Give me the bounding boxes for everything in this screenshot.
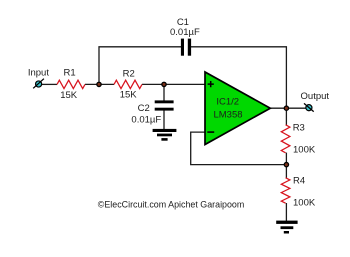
svg-text:0.01µF: 0.01µF xyxy=(131,114,161,125)
svg-text:15K: 15K xyxy=(120,90,138,101)
capacitor C1 xyxy=(181,39,191,56)
wire R4 bottom to ground xyxy=(285,203,287,221)
svg-text:100K: 100K xyxy=(293,198,316,209)
resistor R2 xyxy=(114,80,142,88)
svg-text:R2: R2 xyxy=(123,68,135,79)
output node junction xyxy=(284,106,288,110)
svg-text:Output: Output xyxy=(301,91,330,102)
node A junction xyxy=(97,82,101,86)
svg-text:©ElecCircuit.com Apichet Garai: ©ElecCircuit.com Apichet Garaipoom xyxy=(98,200,245,211)
svg-text:0.01µF: 0.01µF xyxy=(170,27,200,38)
node C junction xyxy=(284,162,288,166)
resistor R1 xyxy=(57,80,85,88)
wire node A up and right to C1 left plate xyxy=(99,47,181,85)
wire C1 right plate to output node xyxy=(191,47,287,108)
wire R3 bottom to node C xyxy=(285,153,287,165)
svg-text:R1: R1 xyxy=(64,68,76,79)
svg-text:R4: R4 xyxy=(293,175,305,186)
wire feedback from op-amp - input to node C xyxy=(191,132,287,165)
svg-text:15K: 15K xyxy=(60,90,78,101)
svg-text:C2: C2 xyxy=(138,103,150,114)
wire R2 to op-amp + input through node B xyxy=(142,83,205,85)
svg-text:IC1/2: IC1/2 xyxy=(216,97,239,108)
wire R1 to R2 through node A xyxy=(85,83,114,85)
resistor R4 xyxy=(281,178,290,203)
resistor R3 xyxy=(281,125,290,153)
wire op-amp output to output terminal xyxy=(270,107,307,109)
output terminal xyxy=(304,103,314,111)
wire input terminal to R1 xyxy=(42,83,58,85)
op-amp U1 IC1/2 LM358 xyxy=(205,72,270,145)
ground below C2 xyxy=(153,129,177,141)
capacitor C2 xyxy=(155,100,174,110)
wire node B down to C2 top plate xyxy=(163,84,165,101)
wire output node down to R3 xyxy=(285,108,287,125)
ground below R4 xyxy=(276,221,297,234)
node B junction xyxy=(162,82,166,86)
svg-text:Input: Input xyxy=(28,67,49,78)
svg-text:R3: R3 xyxy=(293,122,305,133)
svg-text:LM358: LM358 xyxy=(213,110,242,121)
wire node C down to R4 xyxy=(285,165,287,178)
input terminal xyxy=(33,79,44,89)
wire C2 bottom plate to ground xyxy=(163,110,165,130)
svg-text:100K: 100K xyxy=(293,144,316,155)
